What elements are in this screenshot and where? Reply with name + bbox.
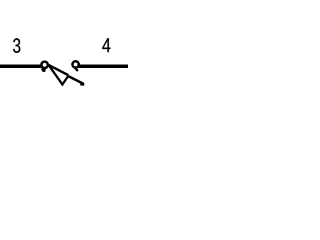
actuator rod xyxy=(68,76,84,84)
pin label 4 xyxy=(102,38,110,52)
wire right (pin 4) xyxy=(79,65,129,69)
actuator rod tip xyxy=(80,83,84,86)
node 4 contact circle xyxy=(72,61,78,67)
pin label 3 xyxy=(13,38,20,53)
switch lever S (pivot side) xyxy=(49,65,69,75)
actuator triangle xyxy=(49,66,68,85)
contact tick at node 3 xyxy=(41,69,46,73)
node 3 contact circle xyxy=(41,62,47,68)
contact tick at node 4 xyxy=(75,68,78,71)
wire left (pin 3) xyxy=(0,65,41,69)
